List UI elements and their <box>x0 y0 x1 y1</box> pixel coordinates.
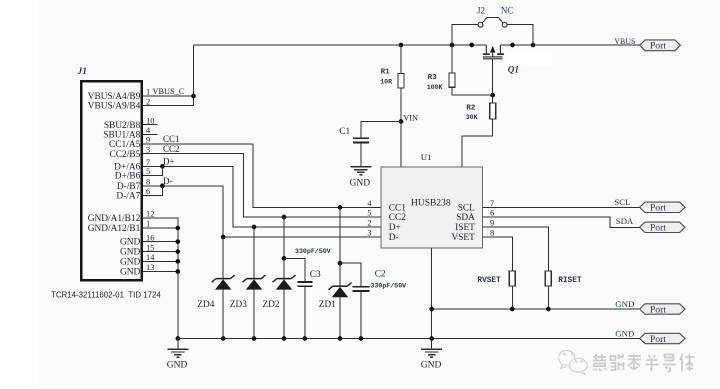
svg-text:ZD4: ZD4 <box>197 300 214 310</box>
svg-text:Q1: Q1 <box>508 64 519 74</box>
wire pin10 stub <box>143 124 158 126</box>
wire J1 gnd pin y241.6 <box>143 241 178 243</box>
wire pin6 join D- <box>143 186 162 196</box>
junction C2 rail <box>359 336 364 341</box>
svg-text:1: 1 <box>146 88 150 97</box>
wire branch to C3 <box>284 258 305 281</box>
junction gate node <box>490 93 495 98</box>
wire J2 left leg <box>452 25 478 45</box>
svg-text:GND: GND <box>421 360 442 370</box>
svg-text:CC1: CC1 <box>389 203 406 213</box>
ground under U1 <box>421 349 442 357</box>
svg-text:14: 14 <box>146 253 155 262</box>
wire net GND upper to port <box>432 308 640 310</box>
wire J1 gnd pin y261.4 <box>143 260 178 262</box>
white patch behind Q1 label <box>508 52 552 66</box>
junction gnd pin y271.5 <box>175 269 180 274</box>
svg-text:VBUS_C: VBUS_C <box>153 87 185 96</box>
op-amp U1 box <box>381 167 483 248</box>
wire net SCL to port <box>483 206 640 208</box>
zener diode ZD4 <box>212 275 235 290</box>
capacitor C2 <box>353 287 370 291</box>
resistor RISET <box>545 271 551 286</box>
junction gnd pin y261.4 <box>175 259 180 264</box>
svg-text:7: 7 <box>146 158 150 167</box>
junction gnd pin y241.6 <box>175 239 180 244</box>
wire J1 gnd pin y271.5 <box>143 271 178 273</box>
port GND upper <box>640 304 685 316</box>
wire gate node to R2 <box>492 95 494 103</box>
svg-text:1: 1 <box>146 220 150 229</box>
port SDA <box>640 222 685 234</box>
jumper J2 <box>478 22 507 27</box>
wire VBUS rail right segment <box>500 44 639 46</box>
svg-text:VSET: VSET <box>452 233 476 243</box>
svg-text:5: 5 <box>367 208 371 217</box>
svg-text:12: 12 <box>146 210 154 219</box>
wire net D+ J1 pin7 to U1 pin2 <box>143 166 381 227</box>
junction C3 rail <box>302 336 307 341</box>
junction rail Q1 source <box>469 43 474 48</box>
svg-text:330pF/50V: 330pF/50V <box>295 248 331 255</box>
port SCL <box>640 202 685 214</box>
watermark wechat icon <box>559 351 588 375</box>
svg-text:VIN: VIN <box>403 114 418 123</box>
wire pin2 join VBUS_C <box>143 97 194 106</box>
svg-text:100K: 100K <box>427 84 443 91</box>
wire R1 to VIN node <box>400 88 402 122</box>
ground under J1 <box>167 349 188 357</box>
svg-text:SDA: SDA <box>456 213 475 223</box>
svg-text:GND: GND <box>120 248 141 258</box>
resistor RVSET <box>509 271 515 286</box>
svg-text:9: 9 <box>490 218 494 227</box>
svg-text:GND/A1/B12: GND/A1/B12 <box>88 214 141 224</box>
svg-text:GND: GND <box>120 268 141 278</box>
svg-text:RISET: RISET <box>558 277 582 285</box>
resistor R3 <box>449 73 455 87</box>
svg-text:VBUS/A9/B4: VBUS/A9/B4 <box>88 102 141 112</box>
wire stub to ground under J1 <box>177 339 179 350</box>
svg-text:Port: Port <box>650 223 666 234</box>
svg-text:CC1: CC1 <box>163 134 180 144</box>
wire C1 to ground <box>360 143 362 167</box>
junction CC2 to ZD2 <box>282 215 287 220</box>
svg-text:C3: C3 <box>310 270 321 280</box>
junction node VIN <box>399 119 404 124</box>
svg-text:D+: D+ <box>389 223 401 233</box>
svg-text:CC2: CC2 <box>163 144 180 154</box>
ground under C1 <box>350 167 371 175</box>
junction ground rail left <box>175 336 180 341</box>
svg-text:3: 3 <box>146 145 150 154</box>
svg-text:7: 7 <box>490 199 494 208</box>
port VBUS <box>640 40 681 52</box>
svg-text:GND: GND <box>167 360 188 370</box>
svg-text:HUSB238: HUSB238 <box>411 199 451 209</box>
junction D+ pins 7/5 <box>160 164 165 169</box>
wire stub to ground under U1 <box>431 339 433 350</box>
junction D- to ZD4 <box>221 235 226 240</box>
wire VIN to U1 <box>400 122 402 168</box>
svg-text:D-: D- <box>163 176 173 186</box>
wire Q1 gate to R2 node <box>492 59 494 95</box>
svg-text:SDA: SDA <box>616 216 634 226</box>
svg-text:16: 16 <box>146 233 154 242</box>
svg-text:13: 13 <box>146 263 154 272</box>
wire D+ to ZD3 <box>253 227 255 279</box>
svg-text:6: 6 <box>146 187 150 196</box>
port GND lower <box>640 333 685 345</box>
transistor Q1 <box>483 45 504 59</box>
zener diode ZD1 <box>329 283 352 298</box>
svg-text:3: 3 <box>367 228 371 237</box>
wire U1 GND pin down <box>431 248 433 339</box>
svg-text:CC2/B5: CC2/B5 <box>110 150 141 160</box>
wire RISET to gnd line <box>547 286 549 309</box>
wire ISET to RISET <box>483 227 549 271</box>
wire net D- J1 pin8 to U1 pin3 <box>143 186 381 237</box>
svg-text:U1: U1 <box>421 152 432 162</box>
wire J2 bridge link <box>482 18 503 23</box>
svg-text:GND: GND <box>120 238 141 248</box>
svg-text:15: 15 <box>146 243 154 252</box>
wire VSET to RVSET <box>483 237 513 271</box>
wire branch to C2 <box>340 263 361 286</box>
wire C2 to rail <box>360 291 362 338</box>
junction ZD4 rail <box>221 336 226 341</box>
wire J1 gnd pin y228 <box>143 227 178 229</box>
svg-text:D-: D- <box>389 233 399 243</box>
junction D- pins 8/6 <box>160 183 165 188</box>
svg-text:GND: GND <box>615 299 634 309</box>
wire J1 gnd pin y251.6 <box>143 251 178 253</box>
junction VBUS_C <box>191 94 196 99</box>
svg-text:2: 2 <box>146 97 150 106</box>
junction ZD1 rail <box>338 336 343 341</box>
svg-text:D+: D+ <box>163 156 175 166</box>
wire bottom GND rail <box>178 338 640 340</box>
junction ZD1 C2 branch <box>338 261 343 266</box>
junction RISET gnd <box>546 307 551 312</box>
capacitor C1 <box>353 138 369 142</box>
zener diode ZD3 <box>243 275 266 290</box>
svg-text:ZD1: ZD1 <box>319 300 336 310</box>
wire net CC2 J1 pin3 to U1 pin5 <box>143 154 381 217</box>
svg-text:30K: 30K <box>466 114 478 121</box>
wire D- to ZD4 <box>222 237 224 279</box>
svg-text:6: 6 <box>490 208 494 217</box>
svg-text:9: 9 <box>146 136 150 145</box>
wire pin1 VBUS_C <box>143 95 194 97</box>
svg-text:10R: 10R <box>380 78 392 85</box>
svg-text:GND: GND <box>120 258 141 268</box>
svg-text:GND/A12/B1: GND/A12/B1 <box>88 224 141 234</box>
svg-text:C1: C1 <box>339 127 350 137</box>
svg-text:VBUS: VBUS <box>614 37 635 46</box>
svg-text:J1: J1 <box>77 67 87 77</box>
wire R2 to U1 top <box>462 119 493 167</box>
svg-text:8: 8 <box>490 228 494 237</box>
svg-text:Port: Port <box>650 334 666 345</box>
wire J2 right leg <box>507 25 533 45</box>
junction gnd pin y228 <box>175 226 180 231</box>
wire J1 ground pins collector <box>143 218 178 339</box>
zener diode ZD2 <box>273 275 296 290</box>
capacitor C3 <box>297 282 312 286</box>
wire CC2 to ZD2 <box>283 217 285 279</box>
wire net SDA to port <box>483 217 640 227</box>
svg-text:CC2: CC2 <box>389 213 406 223</box>
svg-text:J2: J2 <box>477 5 485 15</box>
wire ZD3 to rail <box>253 289 255 338</box>
wire pin5 join D+ <box>143 166 162 175</box>
wire pin4 stub <box>143 133 158 135</box>
svg-text:5: 5 <box>146 167 150 176</box>
wire RVSET to gnd line <box>511 286 513 309</box>
svg-text:ZD2: ZD2 <box>263 300 280 310</box>
junction RVSET gnd <box>510 307 515 312</box>
wire VBUS_C riser <box>193 45 195 97</box>
wire ZD2 to rail <box>283 289 285 338</box>
junction ZD2 C3 branch <box>282 256 287 261</box>
wire VBUS rail left segment <box>194 44 487 46</box>
svg-text:R3: R3 <box>428 74 438 82</box>
svg-text:SCL: SCL <box>458 203 475 213</box>
svg-text:Port: Port <box>650 304 666 315</box>
svg-text:Port: Port <box>650 41 666 52</box>
svg-text:D-/A7: D-/A7 <box>116 192 140 202</box>
junction ZD2 rail <box>282 336 287 341</box>
svg-text:SBU1/A8: SBU1/A8 <box>103 130 140 140</box>
svg-text:SCL: SCL <box>614 197 630 207</box>
svg-text:CC1/A5: CC1/A5 <box>109 140 141 150</box>
svg-text:GND: GND <box>350 178 371 188</box>
junction ZD3 rail <box>252 336 257 341</box>
svg-text:RVSET: RVSET <box>477 277 501 285</box>
svg-text:ZD3: ZD3 <box>230 300 247 310</box>
svg-text:Port: Port <box>650 203 666 214</box>
svg-text:SBU2/B8: SBU2/B8 <box>104 121 141 131</box>
resistor R1 <box>398 74 404 89</box>
svg-text:ISET: ISET <box>455 223 475 233</box>
svg-text:10: 10 <box>146 116 154 125</box>
wire net CC1 J1 pin9 to U1 pin4 <box>143 144 381 208</box>
svg-text:TCR14-32111602-01 TID 1724: TCR14-32111602-01 TID 1724 <box>51 291 161 300</box>
junction rail R1 top <box>399 43 404 48</box>
svg-text:R2: R2 <box>466 105 476 113</box>
svg-text:8: 8 <box>146 178 150 187</box>
wire ZD1 to rail <box>339 297 341 339</box>
watermark text 慧能泰半导体 <box>593 354 695 372</box>
wire VIN to C1 <box>361 122 401 138</box>
junction rail Q1 drain <box>510 43 515 48</box>
svg-text:D-/B7: D-/B7 <box>117 182 141 192</box>
wire rail to R1 <box>400 45 402 74</box>
resistor R2 <box>490 103 496 119</box>
svg-text:R1: R1 <box>381 69 391 77</box>
junction CC1 to ZD1 <box>338 205 343 210</box>
junction gnd pin y251.6 <box>175 249 180 254</box>
wire CC1 to ZD1 <box>339 207 341 286</box>
junction rail J2 right <box>531 43 536 48</box>
connector J1 <box>81 81 142 280</box>
svg-text:2: 2 <box>367 218 371 227</box>
junction rail J2 left <box>450 43 455 48</box>
svg-text:C2: C2 <box>375 270 386 280</box>
junction U1 gnd rail <box>429 336 434 341</box>
svg-text:VBUS/A4/B9: VBUS/A4/B9 <box>88 92 141 102</box>
svg-text:GND: GND <box>615 329 634 339</box>
svg-text:NC: NC <box>501 5 514 15</box>
junction U1 gnd / gnd line1 <box>429 307 434 312</box>
wire C3 to rail <box>304 286 306 338</box>
svg-text:330pF/50V: 330pF/50V <box>371 283 407 290</box>
svg-text:D+/B6: D+/B6 <box>115 172 141 182</box>
wire R3 to gate node <box>452 87 493 95</box>
wire ZD4 to rail <box>222 289 224 338</box>
wire rail to R3 <box>451 45 453 73</box>
junction D+ to ZD3 <box>252 225 257 230</box>
